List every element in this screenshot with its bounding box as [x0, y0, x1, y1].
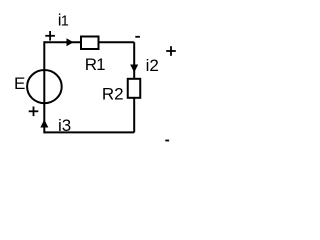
svg-text:E: E — [14, 74, 25, 93]
polarity plus right — [166, 46, 176, 56]
current arrow i3 — [40, 120, 48, 128]
wire left — [43, 41, 45, 133]
wire bottom — [44, 131, 134, 133]
current arrow i2 — [130, 65, 138, 73]
svg-text:R: R — [85, 55, 97, 74]
svg-text:1: 1 — [61, 13, 69, 29]
svg-text:R2: R2 — [102, 84, 124, 103]
current arrow i1 — [67, 38, 74, 46]
wire right — [133, 42, 135, 132]
voltage source E — [27, 70, 62, 103]
resistor R1 — [81, 37, 99, 50]
wire top — [44, 41, 134, 43]
polarity plus top-left — [45, 31, 55, 41]
svg-text:i3: i3 — [58, 116, 71, 135]
svg-text:1: 1 — [96, 55, 105, 74]
polarity plus bottom-left — [29, 107, 39, 117]
polarity minus bottom-right — [165, 140, 169, 142]
svg-text:i2: i2 — [146, 56, 159, 75]
polarity minus top-right of R1 — [135, 36, 140, 38]
resistor R2 — [128, 79, 141, 98]
